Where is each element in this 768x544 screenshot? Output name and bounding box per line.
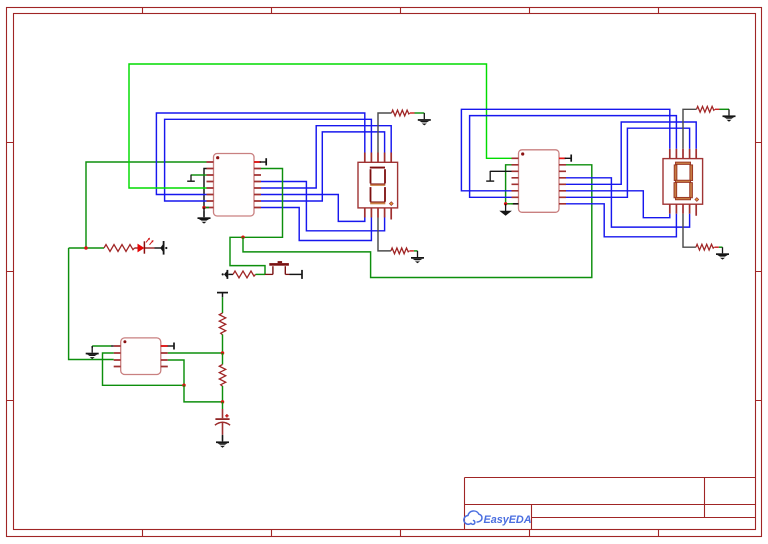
U2 left green bus wire (506, 165, 512, 204)
DS1 segment b (upper-right) (384, 169, 386, 183)
ground flag (rotated) at LED cathode (160, 241, 167, 255)
DS2 segment b (upper-right) (690, 165, 693, 181)
node: threshold junction (182, 384, 186, 388)
wire: black to T-bar (290, 273, 302, 275)
DS2 segment g (middle) (676, 180, 691, 182)
wire: U3 pin gnd (92, 345, 111, 347)
wire: gray common top DS2.T3 (683, 109, 697, 149)
DS1 segment c (lower-right) (384, 187, 386, 202)
wire: LED junction horizontal (69, 247, 104, 249)
net flag at U2 pin3 (486, 171, 511, 181)
capacitor C1 (polarized) (215, 409, 230, 435)
pushbutton S1 (265, 261, 290, 274)
U3 right pins (161, 346, 168, 367)
wire: blue seg4 U2.R5 to DS2.T5 (566, 122, 696, 184)
ground under U2 (arrow style) (499, 211, 512, 216)
wire: junction to R6 (222, 353, 224, 365)
wire: red+green lead to ground (409, 250, 414, 252)
wire: green nub at U1 pin8 (205, 207, 210, 209)
resistor R2 (DS1 top common) (392, 110, 410, 116)
wire: LED cathode to ground flag (155, 247, 162, 249)
wire: blue seg2 U2.L7 to DS2.T2 (470, 116, 677, 198)
VCC bar flag at divider top (217, 293, 228, 298)
bar flag at switch right (301, 270, 303, 279)
net flag at U1 pin3 (187, 175, 206, 182)
resistor R3 (DS1 bottom common) (391, 248, 409, 254)
wire: stem to U1 ground (203, 208, 205, 217)
wire: gray common bottom DS1.B3 (378, 218, 391, 251)
wire: junction down to cap node (184, 385, 223, 402)
ground under C1 (216, 435, 229, 447)
U1 pin1 mark (216, 156, 219, 159)
DS1 top pins (365, 153, 391, 163)
U1 right pins (254, 162, 261, 208)
node: LED junction (84, 246, 88, 250)
EasyEDA logo cloud (464, 511, 482, 524)
resistor R5 (divider top, vertical) (219, 313, 225, 335)
DS1 segment f (upper-left) (370, 169, 372, 183)
wire: blue seg5 U2.R6 to DS2.B1 (566, 191, 670, 218)
wire: blue seg3 U2.R4 to DS2.B4 (566, 178, 690, 227)
wire: R5 to junction (222, 335, 224, 354)
node: divider junction (221, 351, 225, 355)
ground at R8 (716, 247, 729, 259)
wire: blue seg7 U2.R8 to DS2.B2 (566, 204, 676, 237)
VCC bar flag at U3 pin 8 (161, 343, 174, 350)
wire: blue seg6 U2.R7 to DS2.T4 (566, 128, 690, 197)
resistor R8 (DS2 bottom common) (696, 244, 714, 250)
wire: down to 555 output pin (69, 248, 114, 360)
wire: cap to ground (222, 435, 224, 441)
resistor R4 (switch pull) (233, 271, 256, 278)
LED D1 (135, 238, 155, 254)
wire: blue seg7 U1.R8 to DS1.B2 (261, 208, 371, 241)
wire: U3 trigger loop left (103, 353, 185, 385)
DS2 segment a (top) (676, 162, 691, 164)
DS1 segment d (bottom) (370, 202, 385, 204)
wire: gray common top DS1.T3 (378, 113, 392, 153)
node: U2 ground junction (504, 202, 507, 205)
wire: blue seg1 U2.L6 to DS2.T1 (461, 109, 669, 191)
wire: green+black to U2 pin8 (506, 203, 513, 205)
ground at R2 (418, 113, 431, 125)
svg-text:EasyEDA: EasyEDA (484, 514, 532, 526)
wire: blue seg2 U1.L7 to DS1.T2 (165, 119, 372, 201)
DS2 top pins (670, 149, 696, 159)
wire: pushbutton net to U2.R2 (243, 165, 592, 278)
U1 left black bus wire (204, 169, 207, 208)
DS1 segment g (middle) (370, 184, 385, 186)
wire: blue seg1 U1.L6 to DS1.T1 (156, 113, 364, 195)
wire: blue seg6 U1.R7 to DS1.T4 (261, 132, 385, 201)
wire: clock net U1 pin1 to LED junction (86, 162, 207, 248)
U3 left pins (114, 346, 121, 367)
node: pushbutton net junction (241, 236, 245, 240)
op-amp U1 (counter IC) body (214, 154, 255, 217)
ground under U1 (198, 211, 211, 223)
wire: R6 to cap node (222, 386, 224, 402)
DS1 segment a (top) (370, 167, 385, 169)
resistor R7 (DS2 top common) (697, 106, 715, 112)
wire: U3 threshold loop (168, 360, 184, 385)
resistor R1 (LED series) (104, 245, 135, 252)
DS1 bottom pins (365, 208, 391, 220)
DS2 segment f (upper-left) (674, 165, 677, 181)
DS2 decimal point (695, 198, 699, 202)
U3 pin1 mark (123, 340, 126, 343)
ground at R7 (723, 109, 736, 121)
U2 right pins (559, 158, 566, 204)
DS1 decimal point (389, 202, 393, 206)
wire: black to resistor (228, 273, 233, 275)
DS1 segment e (lower-left) (370, 187, 372, 202)
DS2 segment c (lower-right) (690, 183, 693, 198)
U2 left pins (512, 158, 519, 204)
node: cap junction (221, 400, 225, 404)
7-seg display DS1 body (358, 162, 398, 208)
U2 pin1 mark (521, 152, 524, 155)
wire: blue seg5 U1.R6 to DS1.B1 (261, 195, 365, 222)
wire: green segment to switch (256, 273, 266, 275)
VCC bar flag at U1 pin16 (254, 158, 266, 165)
op-amp U2 (counter IC) body (519, 150, 560, 213)
wire: red+green lead to ground (714, 246, 719, 248)
ground at U3 (86, 347, 99, 359)
wire: pushbutton net from U1.R2 (230, 169, 283, 275)
wire: U3 discharge to divider junction (168, 352, 223, 354)
ground flag (rotated) at switch resistor left (222, 270, 228, 279)
wire: red+green lead to ground (715, 108, 720, 110)
7-seg display DS2 body (663, 159, 703, 205)
node: U1 ground junction (202, 206, 206, 210)
wire: bright green carry net U1.L5 to U2.L1 (129, 64, 512, 188)
wire: red+green lead to ground (410, 112, 415, 114)
DS2 segment d (bottom) (676, 197, 691, 199)
wire: stem to U2 ground (505, 204, 507, 211)
DS2 bottom pins (670, 204, 696, 216)
555 timer U3 body (121, 338, 161, 375)
wire: blue seg4 U1.R5 to DS1.T5 (261, 126, 391, 188)
resistor R6 (divider bottom, vertical) (219, 365, 225, 387)
wire: blue seg3 U1.R4 to DS1.B4 (261, 182, 385, 231)
wire: VCC to R5 (222, 297, 224, 313)
ground at R3 (411, 251, 424, 263)
title block (465, 478, 756, 530)
U1 left pins (207, 162, 214, 208)
wire: gray common bottom DS2.B3 (683, 214, 696, 247)
DS2 segment e (lower-left) (674, 183, 677, 198)
VCC bar flag at U2 pin16 (559, 155, 571, 162)
wire: cap node down (222, 402, 224, 409)
